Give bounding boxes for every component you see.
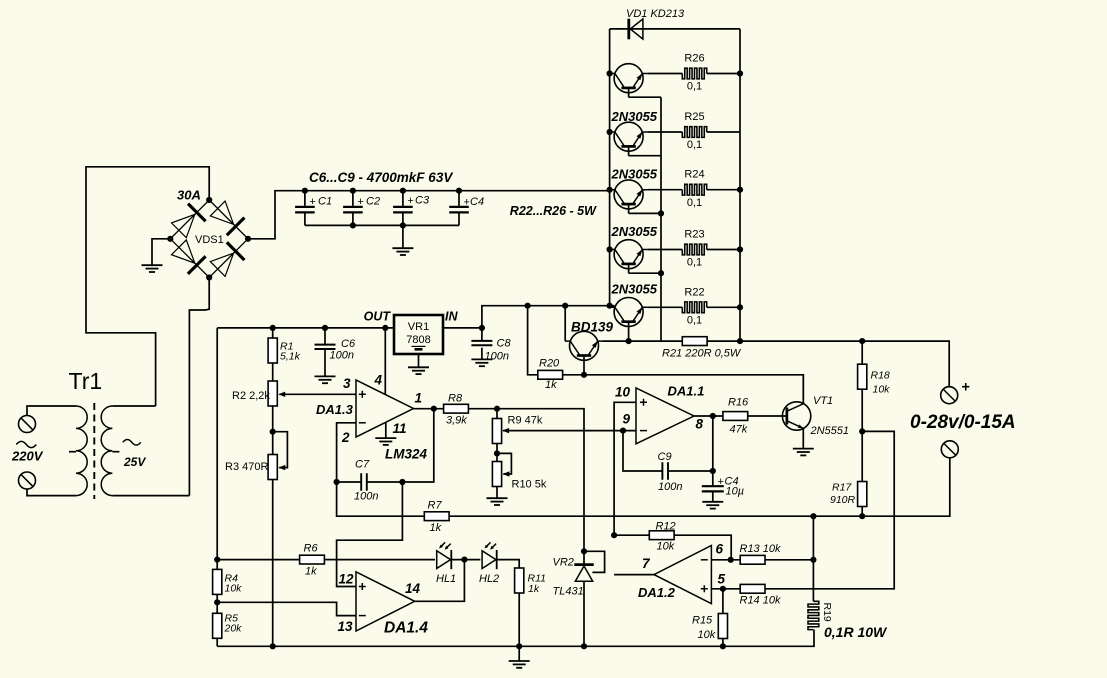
svg-text:4: 4	[374, 373, 383, 388]
wire R26 to bus	[707, 73, 740, 75]
ground R10	[487, 498, 508, 505]
wire HL1 to HL2	[452, 559, 481, 561]
bridge diode D3	[172, 240, 206, 274]
terminal 220V top	[19, 416, 36, 433]
ground VR1	[408, 367, 429, 374]
diode VD1	[629, 19, 643, 40]
wire BD139 collector riser	[564, 306, 566, 341]
resistor R21	[682, 337, 707, 346]
svg-text:100n: 100n	[330, 350, 354, 362]
wire emitter T4 to R23	[648, 249, 683, 251]
resistor R15	[718, 614, 727, 639]
transistor T5 2N3055	[610, 298, 648, 332]
transformer secondary bottom wire	[112, 495, 189, 497]
resistor R20	[538, 370, 563, 379]
wire caps bottom rail	[305, 224, 459, 226]
svg-text:R20: R20	[539, 358, 560, 370]
wire R5 to bottom rail	[216, 638, 218, 646]
wire plus rail	[740, 341, 949, 386]
resistor R8	[444, 404, 469, 413]
wire R16 to VT1 base	[748, 415, 787, 417]
wire bridge bottom to secondary bottom	[189, 278, 209, 496]
svg-text:R15: R15	[692, 615, 713, 627]
svg-text:R22...R26 - 5W: R22...R26 - 5W	[510, 204, 597, 218]
wire raw supply row	[443, 306, 614, 328]
resistor R26	[682, 68, 706, 79]
ground at bridge	[142, 265, 163, 272]
svg-text:C4: C4	[470, 196, 484, 208]
wire R9 top lead	[496, 409, 498, 419]
resistor R14	[740, 584, 765, 593]
svg-text:0,1R 10W: 0,1R 10W	[824, 624, 888, 640]
svg-text:+: +	[357, 196, 363, 208]
resistor R16	[723, 412, 748, 421]
svg-text:1k: 1k	[528, 583, 540, 595]
wire C4 stem	[712, 471, 714, 502]
ground main	[509, 661, 530, 668]
svg-text:IN: IN	[445, 310, 458, 324]
svg-text:2: 2	[341, 430, 350, 445]
op-amp DA1.3	[356, 380, 414, 437]
wire base bus	[660, 97, 662, 341]
potentiometer R2	[268, 381, 277, 406]
potentiometer R3	[268, 455, 277, 480]
wire left rail down	[216, 328, 218, 560]
wire C7 node to R7	[337, 482, 425, 516]
wire DA1.3 out to DA1.4 input node	[337, 482, 403, 587]
ground C4	[702, 502, 723, 509]
wire emitter T3 to R24	[648, 189, 683, 191]
ground DA1.3 pin11	[375, 438, 396, 445]
wire C9 right to junction	[668, 470, 713, 472]
wire VR2 ref bracket	[584, 551, 605, 572]
svg-text:30A: 30A	[177, 188, 201, 203]
svg-text:8: 8	[696, 417, 704, 432]
wire R4 top lead	[216, 560, 218, 570]
svg-text:2N3055: 2N3055	[611, 109, 658, 124]
svg-text:VR2: VR2	[553, 557, 574, 569]
resistor R12	[649, 531, 674, 540]
wire R3 bracket	[273, 432, 288, 468]
wire R15 bottom lead	[722, 639, 724, 647]
svg-text:100n: 100n	[485, 351, 509, 363]
svg-text:14: 14	[405, 581, 421, 596]
wire base lead T5	[628, 331, 630, 341]
wire R18 to R17	[861, 389, 863, 481]
resistor R1	[268, 338, 277, 363]
regulator VR1 7808	[394, 315, 443, 354]
wire pin5 to R14	[711, 588, 740, 590]
resistor R23	[682, 244, 706, 255]
wire main ground stem	[518, 646, 520, 661]
wire caps ground stem	[402, 225, 404, 248]
wire R6 row	[217, 559, 299, 561]
wire pin13 jog	[217, 602, 356, 615]
svg-text:1k: 1k	[305, 566, 317, 578]
transformer primary top wire	[27, 406, 76, 415]
wire R8 to VR2 corner	[468, 409, 584, 565]
capacitor C4a	[449, 191, 469, 226]
svg-text:R10 5k: R10 5k	[512, 479, 547, 491]
svg-text:R25: R25	[684, 111, 704, 123]
svg-text:6: 6	[716, 542, 724, 557]
resistor R6	[300, 555, 325, 564]
wire base jog T3	[629, 212, 661, 214]
svg-text:R19: R19	[821, 603, 833, 622]
svg-text:R23: R23	[684, 229, 704, 241]
svg-text:C1: C1	[318, 196, 332, 208]
svg-text:20k: 20k	[224, 623, 243, 635]
wire VR2 anode to bottom rail	[583, 581, 585, 646]
wire R20 to VT1 collector rail	[563, 375, 804, 404]
bridge diode D4	[210, 242, 244, 276]
wire C9 junction up to output	[712, 416, 714, 471]
wire pin7 bracket	[614, 574, 654, 576]
wire bridge left to ground	[152, 239, 170, 265]
svg-text:100n: 100n	[658, 481, 682, 493]
svg-text:R7: R7	[428, 500, 443, 512]
svg-text:10k: 10k	[225, 583, 243, 595]
svg-text:2N3055: 2N3055	[611, 282, 658, 297]
svg-text:0,1: 0,1	[687, 81, 702, 93]
svg-text:+: +	[962, 380, 970, 396]
svg-text:5,1k: 5,1k	[280, 351, 301, 363]
potentiometer R10	[492, 462, 501, 487]
wire VT1 emitter ground stem	[802, 428, 804, 448]
resistor R7	[424, 512, 449, 521]
svg-text:BD139: BD139	[571, 320, 614, 335]
svg-text:OUT: OUT	[364, 310, 392, 324]
svg-text:1: 1	[415, 391, 423, 406]
svg-text:R13 10k: R13 10k	[740, 543, 781, 555]
wire R17 bottom lead	[861, 507, 863, 517]
svg-text:+: +	[464, 197, 470, 209]
bridge diode D1	[172, 204, 206, 238]
svg-text:HL2: HL2	[479, 573, 499, 585]
svg-text:R22: R22	[684, 286, 704, 298]
svg-text:C7: C7	[355, 459, 370, 471]
wire bridge right to cap rail	[248, 191, 610, 239]
capacitor C2	[343, 191, 363, 226]
capacitor C4	[702, 486, 724, 491]
wire R7 to minus rail	[449, 458, 950, 516]
svg-text:1k: 1k	[545, 379, 557, 391]
svg-text:DA1.1: DA1.1	[668, 384, 705, 399]
svg-text:25V: 25V	[123, 455, 146, 469]
wire R1 to R2	[272, 363, 274, 381]
svg-text:C9: C9	[658, 451, 672, 463]
svg-text:2N3055: 2N3055	[611, 167, 658, 182]
svg-text:910R: 910R	[830, 494, 856, 506]
svg-text:R2 2,2k: R2 2,2k	[232, 390, 270, 402]
svg-text:0,1: 0,1	[687, 139, 702, 151]
terminal output plus	[941, 387, 958, 404]
capacitor C8	[471, 341, 492, 345]
svg-text:9: 9	[622, 412, 630, 427]
wire sense column R19	[812, 516, 814, 601]
svg-text:C8: C8	[497, 338, 512, 350]
svg-text:47k: 47k	[730, 424, 748, 436]
svg-text:R6: R6	[304, 543, 319, 555]
capacitor C3	[393, 191, 413, 226]
wire current sense return	[765, 431, 894, 588]
transistor T2 2N3055	[610, 122, 648, 156]
shunt resistor R19	[808, 601, 819, 629]
transistor T4 2N3055	[610, 240, 648, 274]
capacitor C9	[662, 462, 668, 480]
svg-text:10µ: 10µ	[726, 486, 745, 498]
ground VT1	[793, 449, 814, 456]
resistor R11	[515, 568, 524, 593]
svg-text:10k: 10k	[698, 629, 716, 641]
wire R3 to bottom rail	[272, 480, 274, 647]
svg-text:0,1: 0,1	[687, 257, 702, 269]
wire R4 to R5	[216, 594, 218, 613]
svg-text:VR1: VR1	[408, 321, 429, 333]
svg-text:12: 12	[338, 572, 354, 587]
svg-text:VD1 KD213: VD1 KD213	[626, 8, 685, 20]
svg-text:7808: 7808	[406, 334, 430, 346]
wire R6 to node	[325, 559, 337, 561]
wire base jog T1	[629, 96, 661, 98]
svg-text:R12: R12	[656, 521, 676, 533]
wire C7 left	[337, 481, 361, 483]
wire HL2 to R11	[498, 560, 520, 568]
transformer primary bottom wire	[27, 490, 76, 496]
svg-text:C6: C6	[341, 338, 356, 350]
svg-text:R16: R16	[728, 397, 749, 409]
transformer primary winding	[76, 406, 87, 496]
svg-text:DA1.3: DA1.3	[316, 402, 354, 417]
wire bottom rail	[217, 630, 814, 647]
wire C8 stem	[481, 328, 483, 359]
svg-text:2N3055: 2N3055	[611, 224, 658, 239]
wire R10 bracket	[497, 453, 511, 474]
wire R12 row	[614, 535, 731, 560]
transformer core	[93, 403, 95, 499]
wire output node down to C7	[367, 409, 434, 482]
svg-text:0-28v/0-15A: 0-28v/0-15A	[910, 412, 1016, 433]
transformer primary tap tick	[69, 451, 76, 453]
terminal output minus	[941, 441, 958, 458]
squiggle 25V	[123, 440, 141, 446]
svg-text:C3: C3	[415, 195, 430, 207]
wire base jog T2	[629, 155, 661, 157]
capacitor C1	[295, 191, 315, 226]
wire R15 top lead	[722, 589, 724, 614]
resistor R25	[682, 127, 706, 138]
wire R9 to R10	[496, 444, 498, 462]
wire R13 to sense column	[765, 559, 813, 561]
squiggle 220V	[16, 441, 36, 447]
ground at caps	[392, 248, 413, 255]
svg-text:2N5551: 2N5551	[810, 425, 850, 437]
svg-text:Tr1: Tr1	[69, 368, 103, 394]
svg-text:220V: 220V	[11, 449, 44, 464]
transformer secondary tap tick	[112, 451, 119, 453]
resistor R22	[682, 302, 706, 313]
svg-text:R9 47k: R9 47k	[508, 415, 543, 427]
bridge VDS1 diamond	[170, 200, 248, 278]
svg-text:+: +	[718, 476, 724, 488]
svg-text:1k: 1k	[430, 522, 442, 534]
transformer secondary top wire	[112, 405, 155, 407]
wire driver row BD139 emitter to R21	[603, 340, 682, 342]
transistor T3 2N3055	[610, 180, 648, 214]
svg-text:10k: 10k	[873, 384, 891, 396]
svg-text:+: +	[309, 196, 315, 208]
svg-text:DA1.2: DA1.2	[638, 585, 676, 600]
svg-text:+: +	[407, 195, 413, 207]
svg-text:VT1: VT1	[813, 395, 833, 407]
wire C6 stem	[324, 328, 326, 376]
svg-text:DA1.4: DA1.4	[384, 620, 428, 637]
wire R2 wiper to pin3	[280, 393, 357, 395]
wire DA1.4 output	[415, 560, 465, 602]
capacitor C7	[361, 473, 367, 491]
svg-text:3,9k: 3,9k	[446, 415, 467, 427]
wire pin11 ground stem	[385, 423, 387, 438]
op-amp DA1.2	[654, 546, 711, 604]
svg-text:100n: 100n	[354, 491, 378, 503]
op-amp DA1.4	[356, 572, 415, 631]
wire emitter T5 to R22	[648, 306, 683, 308]
wire LED row	[337, 559, 435, 561]
wire R20 feed	[528, 306, 538, 375]
svg-text:C6...C9 - 4700mkF 63V: C6...C9 - 4700mkF 63V	[309, 170, 453, 185]
wire emitter T1 to R26	[648, 73, 683, 75]
LED HL2	[482, 542, 497, 569]
svg-text:VDS1: VDS1	[195, 234, 224, 246]
shunt regulator VR2 TL431	[574, 565, 593, 582]
wire DA1.1 output to R16	[694, 415, 723, 417]
svg-text:TL431: TL431	[553, 586, 584, 598]
wire R21 to bus	[707, 340, 740, 342]
transistor VT1 2N5551	[782, 375, 810, 430]
wire top rail	[610, 28, 740, 30]
svg-text:0,1: 0,1	[687, 315, 702, 327]
wire R24 to bus	[707, 189, 740, 191]
wire base jog T4	[629, 272, 661, 274]
svg-text:R17: R17	[832, 482, 852, 494]
wire R1 top lead	[272, 328, 274, 338]
wire pin10 bracket	[614, 402, 636, 535]
resistor R18	[858, 364, 867, 389]
svg-text:0,1: 0,1	[687, 197, 702, 209]
svg-text:13: 13	[337, 619, 353, 634]
wire R11 to bottom rail	[518, 593, 520, 646]
svg-text:R26: R26	[684, 53, 704, 65]
wire VR1 ground stem	[418, 354, 420, 367]
wire collector bus	[609, 29, 611, 306]
svg-text:R21 220R 0,5W: R21 220R 0,5W	[662, 348, 742, 360]
wire pin4 stub	[384, 328, 386, 395]
resistor R17	[858, 482, 867, 507]
wire R23 to bus	[707, 249, 740, 251]
potentiometer R9	[492, 419, 501, 444]
wire R2 to R3	[272, 406, 274, 455]
capacitor C6	[315, 345, 336, 349]
svg-text:R3 470R: R3 470R	[225, 461, 268, 473]
wire R10 ground stem	[496, 487, 498, 499]
svg-text:LM324: LM324	[385, 447, 428, 462]
resistor R13	[740, 555, 765, 564]
ground C8	[471, 359, 492, 366]
wire emitter T2 to R25	[648, 131, 683, 133]
svg-text:5: 5	[718, 572, 726, 587]
op-amp DA1.1	[636, 388, 694, 444]
svg-text:11: 11	[393, 421, 407, 436]
transistor T1 2N3055	[610, 64, 648, 98]
resistor R24	[682, 184, 706, 195]
wire pin6 to R13	[711, 559, 740, 561]
svg-text:R14 10k: R14 10k	[740, 595, 781, 607]
wire R9 wiper to pin9	[503, 430, 636, 432]
svg-text:HL1: HL1	[436, 573, 456, 585]
wire R22 to bus	[707, 306, 740, 308]
wire pin2	[337, 423, 356, 482]
wire R25 to bus	[707, 131, 740, 133]
wire 8V rail VR1 OUT	[217, 327, 394, 329]
svg-text:10k: 10k	[657, 541, 675, 553]
resistor R4	[213, 569, 222, 594]
wire pin9 C9 branch	[623, 431, 662, 471]
svg-text:3: 3	[343, 376, 351, 391]
transistor BD139	[565, 331, 603, 365]
svg-text:R18: R18	[871, 370, 890, 382]
resistor R5	[213, 613, 222, 638]
ground C6	[315, 376, 336, 383]
wire BD139 base lead	[583, 365, 585, 375]
wire bridge top to left frame to secondary top	[86, 167, 209, 406]
wire right output bus	[739, 29, 741, 341]
svg-text:R8: R8	[448, 393, 463, 405]
terminal 220V bottom	[19, 472, 36, 489]
transformer secondary winding	[101, 406, 112, 496]
wire DA1.3 output	[414, 408, 444, 410]
bridge diode D2	[210, 201, 244, 235]
LED HL1	[437, 542, 452, 569]
svg-text:C2: C2	[366, 196, 380, 208]
wire R18 top lead	[861, 341, 863, 364]
svg-text:R24: R24	[684, 169, 704, 181]
svg-text:10: 10	[615, 385, 631, 400]
